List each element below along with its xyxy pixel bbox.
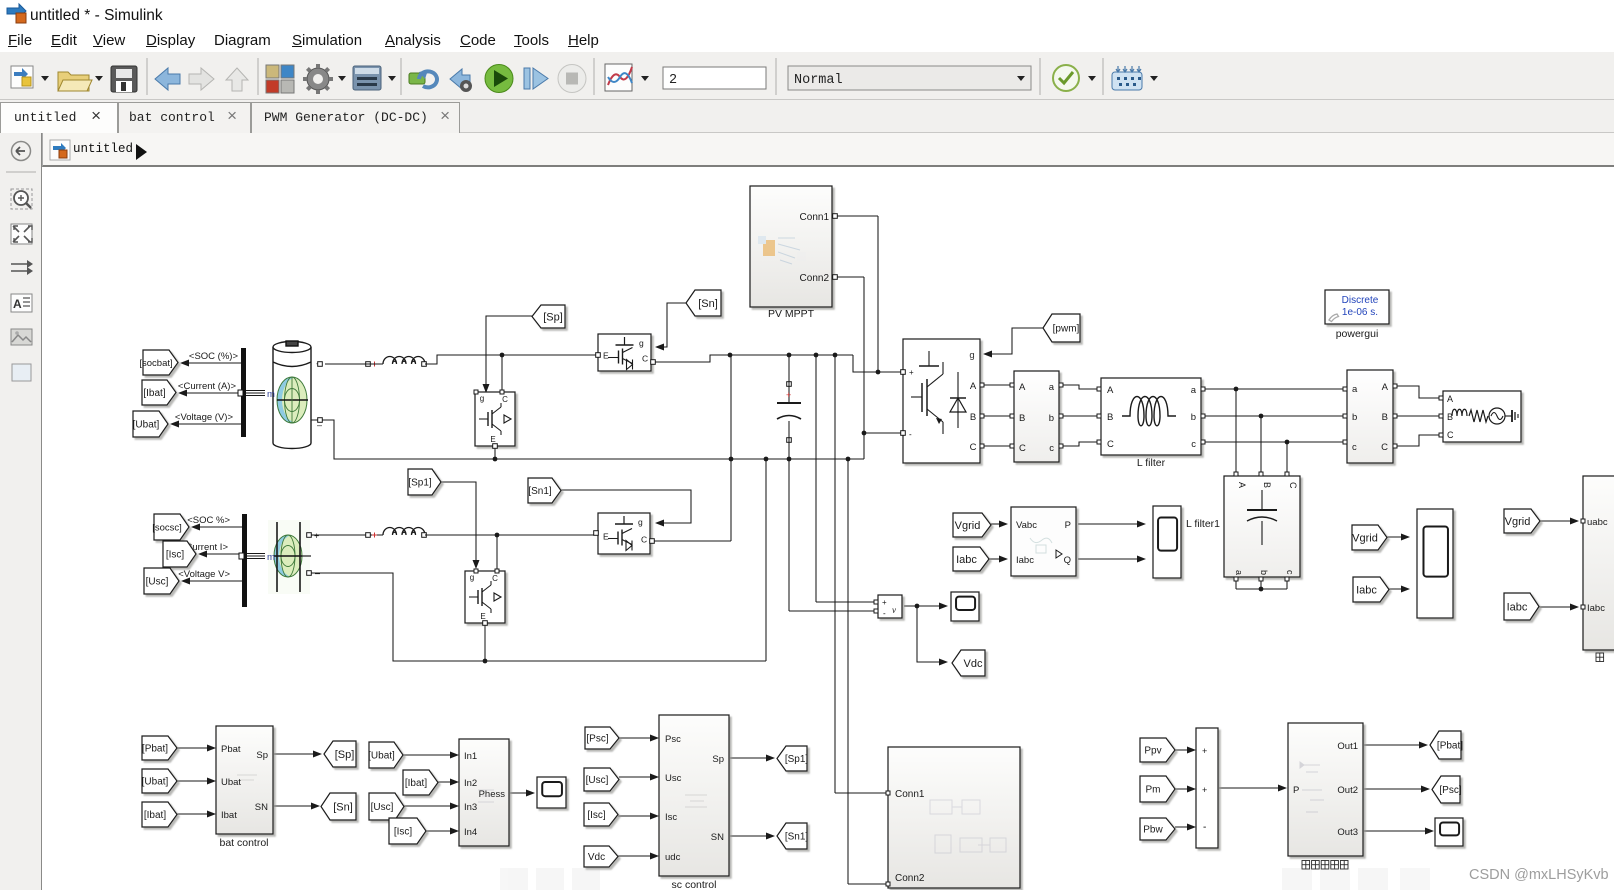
svg-text:Normal: Normal <box>794 73 843 88</box>
svg-text:untitled * - Simulink: untitled * - Simulink <box>30 7 163 24</box>
svg-text:2: 2 <box>669 73 677 88</box>
svg-text:A: A <box>13 297 22 311</box>
